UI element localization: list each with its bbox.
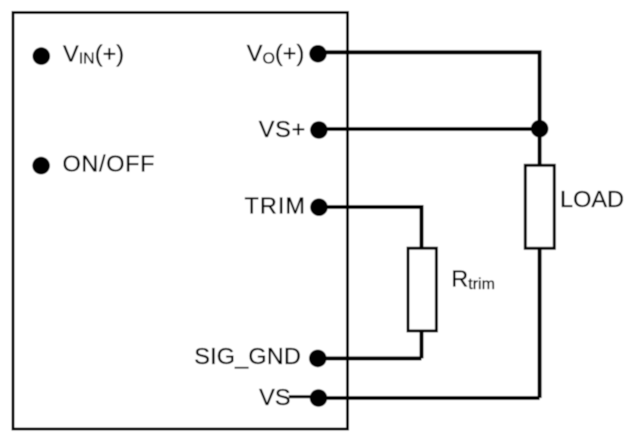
svg-text:VS: VS [259,384,290,410]
svg-text:TRIM: TRIM [245,193,306,219]
svg-text:VS+: VS+ [259,116,306,142]
svg-text:SIG_GND: SIG_GND [194,343,300,369]
svg-text:VO(+): VO(+) [247,40,305,67]
svg-text:LOAD: LOAD [560,186,624,212]
svg-text:ON/OFF: ON/OFF [63,151,155,177]
